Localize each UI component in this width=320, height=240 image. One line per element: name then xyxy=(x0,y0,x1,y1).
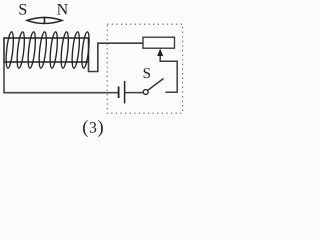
battery long plate (positive) xyxy=(124,81,126,104)
rheostat R body xyxy=(143,37,175,48)
coil winding 6 xyxy=(60,31,70,68)
coil winding 4 xyxy=(38,31,48,68)
coil winding 5 xyxy=(49,31,59,68)
coil L core xyxy=(4,38,89,62)
wire coil-left down and bottom run xyxy=(4,62,118,93)
coil winding 8 xyxy=(81,31,91,68)
coil winding 1 xyxy=(5,31,15,68)
wire switch fixed side to right riser xyxy=(160,55,177,92)
coil winding 2 xyxy=(16,31,26,68)
switch pivot circle xyxy=(143,90,148,95)
svg-text:N: N xyxy=(57,1,69,18)
svg-text:S: S xyxy=(18,1,27,18)
slider arrow head xyxy=(157,49,163,56)
wire battery to switch xyxy=(125,92,144,94)
needle pivot xyxy=(44,17,46,24)
svg-text:S: S xyxy=(143,66,151,82)
switch blade xyxy=(148,79,164,91)
compass needle xyxy=(27,18,62,24)
battery short plate (negative) xyxy=(118,87,120,99)
coil winding 3 xyxy=(27,31,37,68)
svg-text:(3): (3) xyxy=(82,118,104,138)
coil winding 7 xyxy=(71,31,81,68)
dashed enclosure box xyxy=(107,24,182,113)
wire coil-right exit up to top run xyxy=(89,43,144,71)
